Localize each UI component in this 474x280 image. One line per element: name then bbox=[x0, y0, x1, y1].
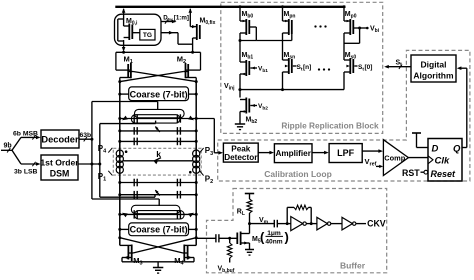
flip-flop U1 bbox=[428, 139, 462, 182]
svg-text:Buffer: Buffer bbox=[340, 261, 366, 271]
bus 63b bbox=[79, 132, 93, 141]
transistor Mp0 bbox=[343, 5, 369, 60]
svg-text:63b: 63b bbox=[80, 132, 92, 139]
decoder block bbox=[41, 130, 79, 148]
wire M0,i drain to pair bbox=[122, 51, 125, 54]
inductor L2 (P3-P2) bbox=[189, 150, 200, 174]
coarse capacitor bank bottom bbox=[118, 223, 197, 236]
svg-text:Reset: Reset bbox=[431, 169, 457, 179]
inverter 2 bbox=[317, 217, 331, 230]
ground M5 source bbox=[245, 249, 254, 251]
resistor R_L bbox=[237, 194, 254, 226]
fine control distribution wire outer bbox=[91, 102, 93, 200]
digital algorithm block bbox=[411, 55, 456, 82]
wire inverter2 to inverter3 bbox=[331, 223, 342, 225]
transistor M0,i bbox=[118, 8, 140, 51]
node P2 bbox=[200, 171, 213, 185]
transistor Mb0 bbox=[239, 5, 257, 62]
svg-text:CKV: CKV bbox=[367, 219, 386, 229]
calibration loop + digital dashed border bbox=[218, 50, 470, 181]
svg-text:D: D bbox=[432, 144, 439, 155]
fine control distribution wire inner bbox=[99, 124, 101, 198]
fine bank bottom center feed wire bbox=[92, 199, 159, 206]
svg-text:40nm: 40nm bbox=[265, 239, 282, 246]
coupling k wire bbox=[123, 149, 193, 164]
transistor Mb2 bbox=[240, 90, 268, 126]
bus 3b LSB bbox=[14, 162, 41, 176]
svg-text:[0]: [0] bbox=[365, 64, 373, 71]
wire to inverter 1 bbox=[277, 222, 290, 225]
ripple replication block dashed border bbox=[221, 2, 383, 133]
wire DSM output bbox=[78, 163, 101, 166]
varactor row 4 bbox=[118, 190, 197, 199]
capacitor buffer input bbox=[216, 234, 237, 242]
cross-coupled pair top frame bbox=[116, 52, 201, 70]
svg-text:9b: 9b bbox=[4, 143, 12, 150]
svg-text:[1:m]: [1:m] bbox=[174, 14, 189, 21]
svg-text:Q: Q bbox=[453, 144, 461, 155]
signal RST bbox=[402, 168, 428, 178]
inductor L1 (P4-P1) bbox=[116, 150, 127, 173]
wire CKV output bbox=[356, 223, 366, 225]
transistor Ms0 bbox=[344, 52, 372, 90]
tail ground bbox=[122, 262, 194, 273]
svg-text:RST: RST bbox=[402, 168, 420, 178]
transistor M4 bbox=[174, 245, 196, 267]
fine bank top lower feed wire bbox=[100, 121, 156, 124]
fine bank top center feed wire bbox=[92, 102, 158, 111]
svg-text:Decoder: Decoder bbox=[41, 134, 79, 144]
ellipsis top bbox=[314, 25, 326, 27]
mirror bias wire bbox=[256, 34, 292, 41]
input bus 9b bbox=[1, 137, 21, 164]
left tank rail bbox=[119, 82, 121, 246]
svg-text:Coarse (7-bit): Coarse (7-bit) bbox=[130, 225, 188, 235]
node P4 bbox=[98, 144, 113, 155]
supply rail VDD bbox=[115, 6, 345, 8]
node P3 bbox=[200, 146, 213, 157]
svg-text:1μm: 1μm bbox=[267, 230, 281, 237]
transistor M1 bbox=[116, 54, 133, 81]
supply tie to D input bbox=[412, 133, 428, 148]
bus S_t output bbox=[384, 60, 411, 69]
wire V_m bbox=[250, 223, 275, 225]
svg-text:1st Order: 1st Order bbox=[40, 158, 79, 168]
peak detector block bbox=[223, 143, 258, 162]
LPF block bbox=[329, 144, 362, 163]
1st order DSM block bbox=[40, 155, 79, 180]
cross coupling wires M3 M4 bbox=[118, 236, 197, 253]
transistor Msn bbox=[283, 52, 312, 90]
transistor Mpn bbox=[281, 5, 295, 60]
svg-text:LPF: LPF bbox=[337, 148, 355, 158]
transistor M2 bbox=[177, 54, 201, 81]
inverter 3 bbox=[342, 217, 356, 230]
svg-text:Calibration Loop: Calibration Loop bbox=[264, 169, 332, 179]
bus D_tw[1:m] bbox=[161, 14, 189, 23]
svg-text:): ) bbox=[285, 230, 289, 245]
wire amplifier to LPF bbox=[312, 151, 329, 155]
svg-text:3b LSB: 3b LSB bbox=[14, 169, 38, 176]
fine tuning bank bottom bbox=[118, 205, 197, 219]
wire Q feedback to digital algorithm bbox=[457, 66, 467, 147]
svg-text:Clk: Clk bbox=[435, 155, 451, 166]
node P1 bbox=[98, 171, 113, 183]
transistor M5 bbox=[237, 224, 261, 250]
capacitor row 2 bbox=[118, 138, 197, 146]
cross coupling wires M1 M2 bbox=[118, 72, 197, 84]
wire V_ref to comparator bbox=[376, 165, 380, 167]
resistor bias buffer bbox=[227, 238, 232, 262]
fine tuning bank top bbox=[118, 109, 197, 123]
ground Mb2 bbox=[235, 123, 245, 125]
varactor row 1 bbox=[118, 126, 197, 135]
svg-text:(: ( bbox=[260, 230, 265, 245]
right tank rail bbox=[195, 82, 197, 246]
svg-text:Ripple Replication Block: Ripple Replication Block bbox=[281, 121, 379, 131]
inductor coupling dashed box bbox=[113, 148, 201, 175]
svg-text:Algorithm: Algorithm bbox=[413, 71, 454, 81]
coarse capacitor bank top bbox=[118, 87, 197, 101]
transmission gate TG bbox=[140, 29, 155, 40]
svg-text:[n]: [n] bbox=[303, 64, 311, 71]
svg-text:DSM: DSM bbox=[50, 169, 70, 179]
feedback resistor inverter 1 bbox=[287, 205, 313, 225]
svg-text:6b MSB: 6b MSB bbox=[13, 130, 38, 137]
wire LPF to comparator bbox=[362, 149, 383, 153]
label M5 size 1um/40nm bbox=[260, 230, 289, 246]
svg-text:Detector: Detector bbox=[224, 153, 258, 162]
wire comparator to Clk bbox=[408, 157, 428, 159]
buffer dashed border bbox=[207, 189, 387, 273]
wire P3 to peak detector bbox=[196, 119, 223, 155]
wire inverter1 to inverter2 bbox=[306, 223, 317, 225]
svg-text:Amplifier: Amplifier bbox=[275, 149, 311, 158]
tuning cell rounded box bbox=[115, 14, 162, 45]
inverter 1 bbox=[291, 217, 307, 231]
ellipsis middle bbox=[318, 68, 330, 70]
transistor M0,fix bbox=[189, 8, 216, 54]
svg-text:Comp: Comp bbox=[384, 153, 405, 162]
bus 6b MSB bbox=[13, 130, 41, 139]
svg-text:Coarse (7-bit): Coarse (7-bit) bbox=[130, 90, 188, 100]
comparator Comp bbox=[383, 140, 408, 176]
fine bank bottom upper feed wire bbox=[100, 195, 155, 198]
capacitor row 3 bbox=[118, 179, 197, 187]
amplifier block bbox=[274, 144, 312, 163]
wire tank to buffer bbox=[196, 237, 216, 239]
svg-text:Digital: Digital bbox=[421, 60, 447, 70]
wire TG to M0,fix gate bbox=[161, 31, 193, 44]
capacitor buffer coupling bbox=[273, 220, 275, 228]
svg-text:TG: TG bbox=[143, 32, 152, 39]
wire peak detector to amplifier bbox=[258, 151, 274, 155]
transistor M3 bbox=[120, 245, 143, 267]
wire V_inj rail bbox=[238, 88, 344, 91]
transistor Mb1 bbox=[240, 52, 268, 90]
